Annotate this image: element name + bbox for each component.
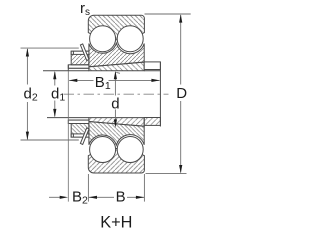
D arrow up (179, 14, 182, 22)
lock washer bottom (68, 120, 89, 123)
ball right bottom (117, 137, 143, 163)
d2 arrow down (26, 132, 29, 140)
B1 arrow right (151, 79, 159, 82)
B left arrow (89, 196, 97, 199)
B2 tail line left (49, 196, 61, 198)
d1 arrow down (53, 109, 56, 117)
bottom half = mirror of top (68, 118, 144, 173)
svg-text:d: d (111, 95, 119, 112)
locknut top (71, 51, 89, 65)
B2 arrow right-pointing (60, 196, 68, 199)
sleeve thread left portion bottom (68, 118, 89, 121)
B extension left (87, 174, 89, 202)
sleeve thread left portion top (68, 68, 89, 71)
B extension right (143, 174, 145, 202)
shaft line bottom left (47, 117, 68, 119)
centerline (shaft axis) (64, 93, 169, 95)
B right arrow (136, 196, 144, 199)
d1 arrow up (53, 71, 56, 79)
B1 arrow left (69, 79, 77, 82)
ball left bottom (90, 137, 116, 163)
B1 extension left (washer face extended) (67, 71, 69, 202)
top half group (68, 15, 160, 70)
locknut top bevel band (71, 51, 89, 54)
sleeve right extension bottom (hatched) (144, 118, 160, 126)
d2 arrow up (26, 48, 29, 56)
locknut bottom bevel band (71, 134, 89, 137)
tick near d arrow (116, 71, 120, 74)
d dimension line (114, 72, 116, 96)
sleeve right extension top (plain) (144, 62, 160, 70)
sleeve bore line top right (144, 70, 160, 72)
washer left face line (67, 65, 69, 71)
ball left top (90, 26, 116, 52)
nut bevel edge tick (72, 51, 74, 54)
inner ring bottom section (89, 122, 144, 146)
arrowheads (26, 14, 183, 199)
B1 dimension line (69, 79, 93, 81)
outer ring U1 top section (88, 15, 144, 39)
outer ring bottom section (88, 149, 144, 173)
washer tab top (80, 44, 89, 61)
adapter sleeve top section (89, 62, 144, 71)
D dimension line (180, 15, 182, 85)
D arrow down (179, 165, 182, 173)
D extension line bottom (146, 172, 187, 174)
svg-text:B: B (116, 189, 126, 206)
d1 dimension line (54, 72, 56, 86)
d arrow down (114, 119, 117, 127)
washer tab bottom (80, 128, 89, 144)
B dimension line (89, 196, 114, 198)
locknut bottom (71, 124, 89, 138)
svg-text:D: D (176, 85, 187, 102)
svg-text:K+H: K+H (100, 214, 132, 230)
d2 extension line bottom (21, 139, 79, 141)
d arrow up (114, 71, 117, 79)
d2 dimension line (26, 49, 28, 85)
sleeve right face line (159, 62, 161, 127)
shaft line top left (43, 70, 68, 72)
lock washer top (68, 65, 89, 68)
ball right top (117, 26, 143, 52)
adapter sleeve bottom section (89, 118, 144, 127)
inner ring top section (89, 43, 144, 67)
d2 extension line top (21, 47, 79, 49)
D extension line top (145, 13, 191, 15)
nut bevel edge tick (72, 134, 74, 137)
